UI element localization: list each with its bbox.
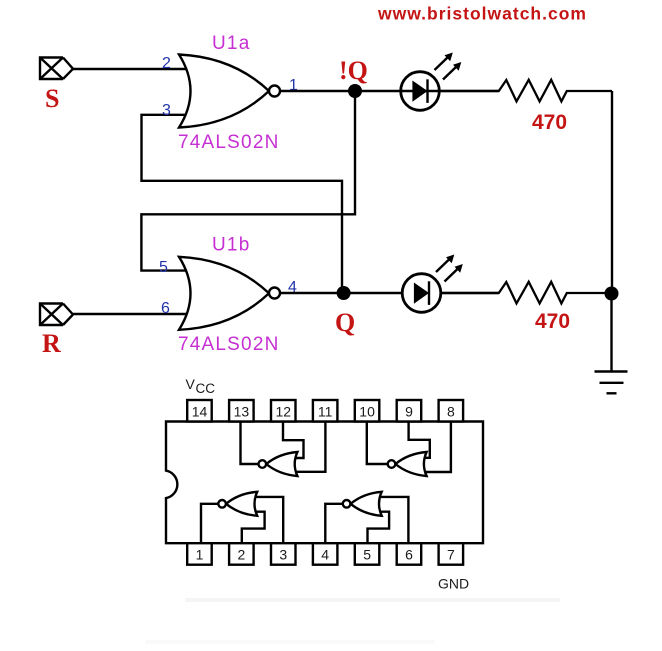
pin 5 bbox=[355, 543, 380, 565]
resistor R1 bbox=[439, 80, 612, 102]
pin 12 bbox=[271, 400, 296, 422]
value 470 (R1) bbox=[532, 111, 567, 134]
wire feedback !Q to U1b pin 5 bbox=[141, 91, 355, 271]
pin label 1 bbox=[289, 77, 298, 94]
junction node at ground rail bbox=[605, 287, 619, 301]
faint erased caption remnant bbox=[145, 598, 560, 644]
pin 9 bbox=[397, 400, 422, 422]
svg-text:4: 4 bbox=[321, 547, 329, 563]
value 74ALS02N (U1b) bbox=[178, 334, 280, 355]
svg-text:U1b: U1b bbox=[212, 235, 250, 256]
pin label 4 bbox=[288, 279, 297, 296]
svg-text:GND: GND bbox=[438, 576, 469, 592]
pin 14 bbox=[187, 400, 212, 422]
pin 4 bbox=[313, 543, 338, 565]
svg-text:3: 3 bbox=[279, 547, 287, 563]
svg-text:5: 5 bbox=[159, 259, 168, 276]
wire R to U1b pin 6 bbox=[73, 313, 188, 315]
NOR gate U1a bbox=[179, 55, 280, 128]
svg-text:6: 6 bbox=[405, 547, 413, 563]
svg-text:1: 1 bbox=[196, 547, 204, 563]
svg-text:R: R bbox=[42, 329, 61, 358]
svg-text:74ALS02N: 74ALS02N bbox=[178, 132, 280, 153]
IC body 74ALS02N DIP-14 with notch bbox=[166, 422, 483, 544]
NOR gate U1b bbox=[179, 257, 280, 330]
svg-text:13: 13 bbox=[234, 404, 250, 420]
input port R bbox=[40, 304, 73, 326]
svg-text:6: 6 bbox=[161, 300, 170, 317]
svg-text:8: 8 bbox=[447, 404, 455, 420]
pin 8 bbox=[439, 400, 464, 422]
svg-text:7: 7 bbox=[447, 547, 455, 563]
label !Q bbox=[339, 56, 368, 85]
pin 1 bbox=[187, 543, 212, 565]
pin label 3 bbox=[162, 102, 171, 119]
DIP gate 4 wires (pins 11,12,13) bbox=[241, 422, 326, 472]
svg-text:www.bristolwatch.com: www.bristolwatch.com bbox=[377, 4, 587, 24]
svg-text:2: 2 bbox=[162, 55, 171, 72]
pin 10 bbox=[355, 400, 380, 422]
pin 2 bbox=[229, 543, 254, 565]
pin 13 bbox=[229, 400, 254, 422]
pin 7 bbox=[439, 543, 464, 565]
pin 11 bbox=[313, 400, 338, 422]
svg-text:3: 3 bbox=[162, 102, 171, 119]
pin label 5 bbox=[159, 259, 168, 276]
svg-text:5: 5 bbox=[363, 547, 371, 563]
wire U1b output to ground rail (net Q) bbox=[280, 292, 499, 294]
label GND bbox=[438, 576, 469, 592]
svg-text:V: V bbox=[186, 376, 196, 392]
LED D1 bbox=[401, 53, 462, 111]
svg-text:11: 11 bbox=[318, 404, 333, 420]
pin label 2 bbox=[162, 55, 171, 72]
svg-text:S: S bbox=[45, 84, 59, 113]
wire S to U1a pin 2 bbox=[73, 68, 188, 70]
svg-text:12: 12 bbox=[276, 404, 292, 420]
wire feedback Q to U1a pin 3 bbox=[142, 115, 343, 293]
value 74ALS02N (U1a) bbox=[178, 132, 280, 153]
pin label 6 bbox=[161, 300, 170, 317]
LED D2 bbox=[402, 255, 463, 313]
DIP gate 1 (output pin 1) bbox=[218, 492, 257, 516]
svg-text:Q: Q bbox=[335, 308, 355, 337]
svg-text:2: 2 bbox=[238, 547, 246, 563]
pin 3 bbox=[271, 543, 296, 565]
pin 6 bbox=[397, 543, 422, 565]
wire junction to ground bbox=[610, 294, 612, 372]
label R bbox=[42, 329, 61, 358]
value 470 (R2) bbox=[535, 310, 570, 333]
svg-text:9: 9 bbox=[405, 404, 413, 420]
DIP gate 3 (output pin 10) bbox=[388, 452, 427, 476]
ground bbox=[595, 372, 628, 394]
junction node !Q bbox=[348, 84, 362, 98]
DIP gate 4 (output pin 13) bbox=[259, 452, 298, 476]
input port S bbox=[40, 58, 73, 80]
svg-text:74ALS02N: 74ALS02N bbox=[178, 334, 280, 355]
label Q bbox=[335, 308, 355, 337]
label S bbox=[45, 84, 59, 113]
DIP gate 2 wires (pins 4,5,6) bbox=[325, 497, 408, 543]
wire U1a output to ground rail corner (net !Q) bbox=[280, 91, 612, 293]
DIP gate 2 (output pin 4) bbox=[343, 492, 382, 516]
DIP gate 1 wires (pins 1,2,3) bbox=[201, 497, 283, 543]
svg-text:!Q: !Q bbox=[339, 56, 368, 85]
label VCC bbox=[186, 376, 216, 396]
svg-text:14: 14 bbox=[192, 404, 208, 420]
svg-text:470: 470 bbox=[535, 310, 570, 333]
label U1b bbox=[212, 235, 250, 256]
svg-text:10: 10 bbox=[359, 404, 375, 420]
label U1a bbox=[212, 33, 250, 54]
svg-text:470: 470 bbox=[532, 111, 567, 134]
resistor R2 bbox=[441, 282, 612, 304]
svg-text:U1a: U1a bbox=[212, 33, 250, 54]
svg-text:CC: CC bbox=[196, 381, 216, 396]
junction node Q bbox=[337, 286, 351, 300]
title www.bristolwatch.com bbox=[377, 4, 587, 24]
DIP gate 3 wires (pins 8,9,10) bbox=[367, 422, 451, 473]
